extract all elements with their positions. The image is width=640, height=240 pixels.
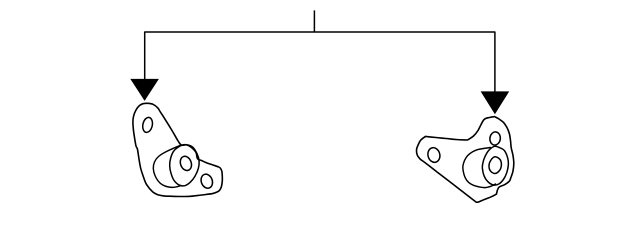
right bracket cylinder barrel	[463, 148, 496, 188]
arrowhead right	[481, 91, 510, 114]
right bracket outline	[417, 117, 514, 203]
wire: horizontal callout bar with two drops	[145, 32, 495, 92]
arrowhead left	[130, 79, 159, 101]
left bracket tab hole	[199, 173, 214, 190]
left bracket cylinder face	[170, 145, 199, 186]
left bracket cylinder barrel	[153, 145, 181, 187]
right bracket bore hole	[489, 157, 501, 174]
callout leader stem	[313, 10, 315, 32]
right bracket top hole	[489, 131, 501, 146]
left bracket bore hole	[178, 155, 193, 172]
right bracket left hole	[426, 146, 441, 163]
right bracket cylinder face	[482, 146, 508, 185]
left bracket top hole	[141, 116, 153, 133]
left bracket outline	[133, 103, 222, 196]
